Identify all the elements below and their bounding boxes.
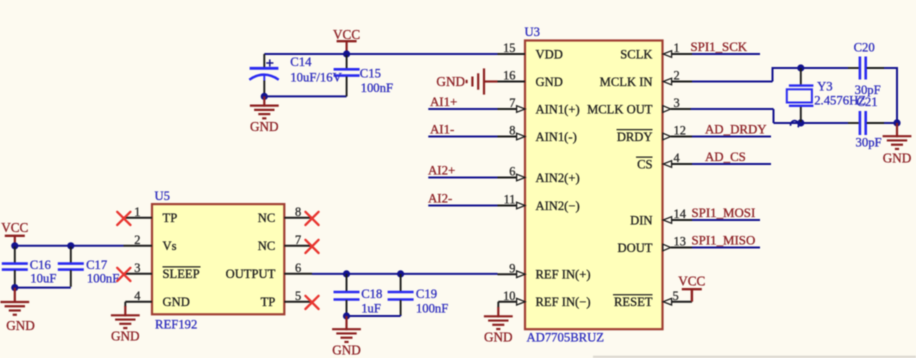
svg-text:100nF: 100nF	[361, 81, 393, 95]
svg-text:4: 4	[674, 151, 680, 165]
svg-text:RESET: RESET	[614, 295, 653, 309]
svg-text:GND: GND	[484, 330, 513, 345]
svg-text:2: 2	[134, 233, 140, 247]
svg-text:1: 1	[674, 41, 680, 55]
svg-text:GND: GND	[883, 151, 912, 166]
svg-text:3: 3	[674, 96, 680, 110]
svg-text:100nF: 100nF	[416, 301, 448, 315]
svg-text:GND: GND	[6, 318, 35, 333]
svg-text:MCLK IN: MCLK IN	[600, 75, 653, 89]
svg-text:8: 8	[509, 124, 515, 138]
svg-text:VDD: VDD	[536, 47, 563, 61]
svg-text:12: 12	[674, 124, 686, 138]
svg-text:AI2-: AI2-	[428, 192, 452, 206]
svg-text:VCC: VCC	[678, 273, 705, 288]
svg-text:AIN1(+): AIN1(+)	[536, 102, 580, 116]
svg-text:GND: GND	[332, 343, 361, 358]
svg-text:VCC: VCC	[333, 27, 360, 42]
svg-text:Y3: Y3	[817, 79, 833, 93]
svg-text:AIN2(−): AIN2(−)	[536, 199, 580, 213]
svg-text:REF IN(+): REF IN(+)	[536, 268, 591, 282]
svg-text:AD7705BRUZ: AD7705BRUZ	[527, 330, 605, 344]
svg-text:11: 11	[504, 193, 516, 207]
svg-text:6: 6	[509, 165, 515, 179]
svg-text:DIN: DIN	[630, 213, 652, 227]
svg-text:1uF: 1uF	[361, 301, 381, 315]
svg-text:SCLK: SCLK	[620, 47, 652, 61]
svg-text:CS: CS	[637, 157, 652, 171]
svg-text:GND: GND	[436, 74, 465, 89]
svg-text:NC: NC	[258, 211, 276, 225]
svg-text:14: 14	[674, 207, 686, 221]
svg-text:GND: GND	[111, 329, 140, 344]
svg-text:8: 8	[295, 205, 301, 219]
svg-text:2: 2	[674, 69, 680, 83]
svg-text:GND: GND	[250, 119, 279, 134]
svg-text:DOUT: DOUT	[618, 241, 653, 255]
svg-text:NC: NC	[258, 239, 276, 253]
svg-text:C16: C16	[30, 258, 51, 272]
svg-text:AI1-: AI1-	[430, 123, 454, 137]
svg-text:Vs: Vs	[163, 239, 177, 253]
svg-text:C20: C20	[854, 41, 875, 55]
svg-text:10: 10	[503, 289, 515, 303]
svg-text:5: 5	[673, 289, 679, 303]
svg-text:7: 7	[295, 233, 301, 247]
svg-text:AIN1(-): AIN1(-)	[536, 130, 577, 144]
svg-text:3: 3	[134, 261, 140, 275]
svg-text:DRDY: DRDY	[617, 130, 653, 144]
svg-text:30pF: 30pF	[856, 136, 882, 150]
svg-text:SPI1_MISO: SPI1_MISO	[692, 234, 756, 248]
svg-text:U3: U3	[525, 25, 541, 39]
svg-text:16: 16	[503, 69, 515, 83]
svg-text:C21: C21	[856, 95, 877, 109]
svg-text:GND: GND	[163, 295, 190, 309]
svg-text:GND: GND	[536, 75, 563, 89]
svg-text:7: 7	[509, 96, 515, 110]
svg-text:4: 4	[134, 289, 140, 303]
svg-text:AI1+: AI1+	[430, 95, 457, 109]
svg-text:6: 6	[295, 261, 301, 275]
svg-text:VCC: VCC	[1, 220, 28, 235]
svg-text:AD_CS: AD_CS	[705, 150, 746, 164]
svg-text:REF192: REF192	[155, 318, 197, 332]
svg-text:100nF: 100nF	[87, 272, 119, 286]
svg-text:SLEEP: SLEEP	[163, 267, 200, 281]
svg-text:C15: C15	[360, 66, 381, 80]
svg-text:U5: U5	[155, 189, 171, 203]
svg-text:5: 5	[295, 289, 301, 303]
svg-text:C17: C17	[86, 258, 107, 272]
svg-text:10uF/16V: 10uF/16V	[290, 71, 342, 85]
svg-text:OUTPUT: OUTPUT	[226, 267, 276, 281]
svg-text:TP: TP	[261, 295, 276, 309]
svg-text:TP: TP	[163, 211, 178, 225]
svg-text:AD_DRDY: AD_DRDY	[705, 123, 767, 137]
svg-text:1: 1	[134, 205, 140, 219]
svg-text:AIN2(+): AIN2(+)	[536, 171, 580, 185]
svg-text:AI2+: AI2+	[428, 164, 455, 178]
svg-text:REF IN(−): REF IN(−)	[536, 295, 591, 309]
svg-text:C14: C14	[290, 55, 312, 69]
svg-text:15: 15	[503, 41, 515, 55]
svg-text:SPI1_SCK: SPI1_SCK	[691, 40, 748, 54]
svg-text:MCLK OUT: MCLK OUT	[587, 102, 653, 116]
svg-text:9: 9	[509, 261, 515, 275]
svg-text:13: 13	[674, 235, 686, 249]
svg-text:10uF: 10uF	[30, 272, 56, 286]
svg-text:C19: C19	[416, 287, 437, 301]
svg-text:SPI1_MOSI: SPI1_MOSI	[692, 206, 756, 220]
svg-text:C18: C18	[361, 287, 382, 301]
